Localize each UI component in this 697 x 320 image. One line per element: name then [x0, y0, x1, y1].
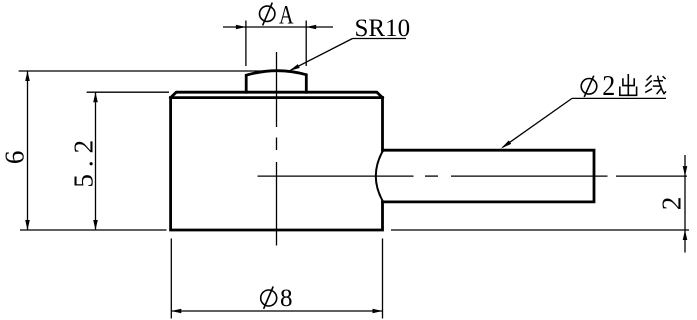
- svg-text:2: 2: [656, 197, 686, 211]
- phi-2 cable label: CJK chu (out): [620, 75, 637, 96]
- dimension 6 extension lines: [19, 71, 277, 230]
- phi-2 cable label: CJK xian (wire): [645, 75, 666, 94]
- dimension 6 arrows: [25, 71, 30, 81]
- dimension phi-A dimension line: [223, 26, 333, 28]
- vertical centerline: [276, 52, 278, 246]
- horizontal centerline: [258, 175, 688, 177]
- SR10 leader: [289, 39, 406, 72]
- svg-text:SR10: SR10: [355, 15, 411, 42]
- dimension phi-8 dimension line: [171, 310, 382, 312]
- dimension 6 dimension line: [27, 71, 29, 230]
- dimension phi-8 extension lines: [171, 239, 382, 319]
- svg-text:A: A: [279, 1, 294, 30]
- svg-text:2: 2: [602, 71, 615, 102]
- dimension 5.2 extension line: [87, 91, 169, 93]
- body outline (main block): [171, 92, 383, 230]
- phi-2 cable label: phi symbol: [581, 71, 615, 102]
- dimension phi-A arrows: [236, 25, 246, 30]
- dimension phi-A text: [260, 1, 294, 30]
- svg-text:6: 6: [0, 151, 30, 165]
- dimension 2 (right) extension line: [391, 229, 689, 231]
- svg-text:8: 8: [280, 285, 293, 312]
- svg-text:5.2: 5.2: [69, 133, 99, 188]
- phi-2 cable leader: [501, 98, 666, 148]
- dimension 2 arrows: [683, 166, 688, 176]
- dimension 2 dimension line: [684, 155, 686, 253]
- cable outline: [383, 150, 595, 202]
- dimension 5.2 dimension line: [95, 92, 97, 230]
- dimension phi-A extension lines: [246, 21, 306, 67]
- dimension phi-8 text: [261, 285, 293, 312]
- cable root curve: [376, 150, 383, 202]
- dimension phi-8 arrows: [171, 309, 181, 314]
- spherical button (SR10 boss): [246, 71, 306, 93]
- dimension 5.2 arrows: [93, 92, 98, 102]
